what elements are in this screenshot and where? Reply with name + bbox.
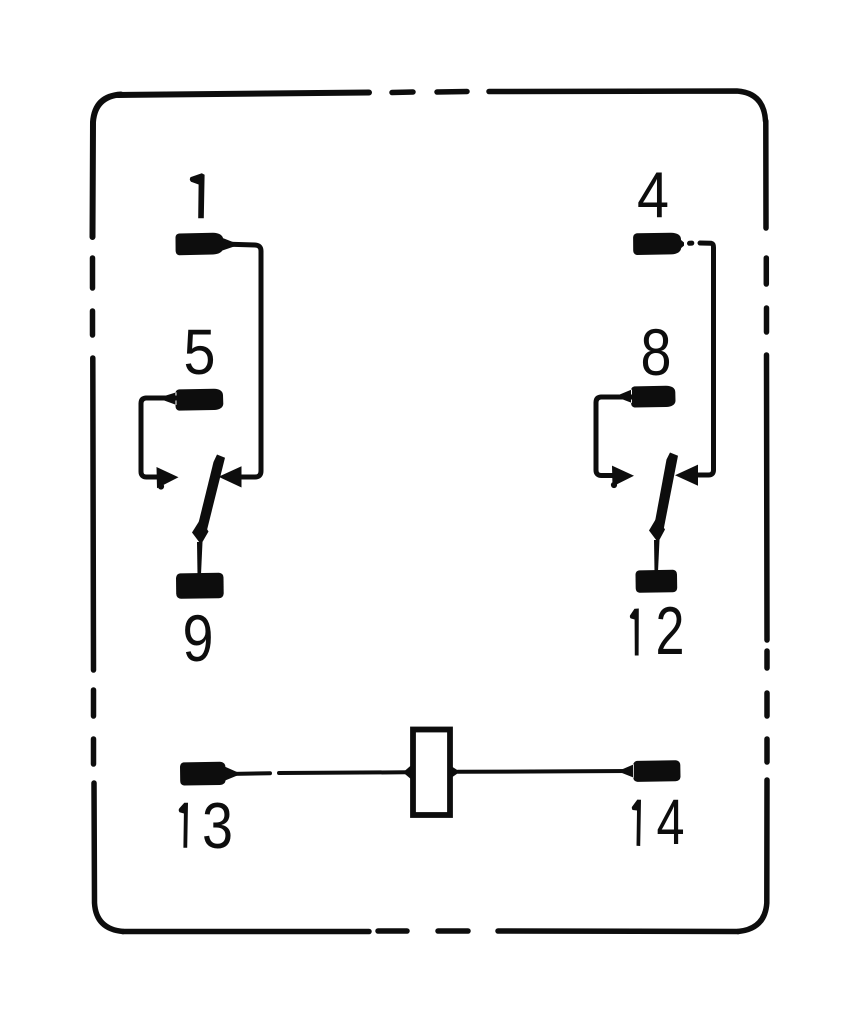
relay enclosure outline: right side lower dash 1 xyxy=(764,651,770,668)
relay enclosure outline: right side lower dash 3 xyxy=(764,739,770,762)
NO contact arrow of pole A (from pin 5) xyxy=(157,467,179,488)
relay enclosure outline: right side upper solid xyxy=(763,121,769,228)
wire pin 12 stem to armature pivot of pole B xyxy=(654,540,660,572)
relay enclosure outline: right side bottom solid and bottom-right corner xyxy=(738,780,767,932)
armature (common pole B, pin 12) xyxy=(654,453,678,531)
terminal pin 5 xyxy=(164,389,224,411)
pin label 13 xyxy=(179,789,233,862)
relay enclosure outline: bottom solid right span xyxy=(498,928,738,934)
relay enclosure outline: right side upper dash 2 xyxy=(764,308,770,332)
relay enclosure outline: left side middle solid xyxy=(90,358,96,670)
armature (common pole A, pin 9) xyxy=(197,455,225,533)
terminal pin 1 xyxy=(176,233,235,255)
relay enclosure outline: bottom dash 2 xyxy=(438,928,468,934)
armature pivot diamond of pole B xyxy=(649,517,665,543)
relay enclosure outline: top solid left span xyxy=(118,93,369,96)
relay enclosure outline: top dash 2 xyxy=(437,89,467,95)
terminal pin 4 xyxy=(633,233,684,255)
pin label 14 xyxy=(632,786,685,858)
wire pin 4 dashed link dash 1 xyxy=(690,241,692,246)
coil right lead flare xyxy=(451,766,460,778)
relay enclosure outline: right side lower dash 2 xyxy=(764,693,770,716)
pin label 12 xyxy=(630,593,685,669)
relay enclosure outline: top-left corner and left side upper solid xyxy=(93,95,122,238)
wire pin 4 dashed link dash 2 and bend down to NC contact of pole B xyxy=(699,243,714,475)
relay enclosure outline: top dash 1 xyxy=(392,89,413,95)
svg-text:9: 9 xyxy=(183,601,214,675)
relay enclosure outline: left side upper dash 1 xyxy=(90,258,96,288)
wire coil right lead to pin 14 xyxy=(458,769,630,774)
terminal pin 14 xyxy=(622,760,681,782)
relay enclosure outline: left side bottom solid and bottom-left corner xyxy=(94,783,123,932)
wire pin 5 to NO contact of pole A xyxy=(141,398,176,477)
relay enclosure outline: bottom dash 1 xyxy=(378,928,407,934)
relay enclosure outline: right side middle solid xyxy=(764,355,770,640)
pin label 1 xyxy=(190,173,205,218)
svg-text:5: 5 xyxy=(184,316,216,388)
svg-text:2: 2 xyxy=(656,593,685,669)
coil left lead flare xyxy=(403,765,412,781)
relay enclosure outline: left side lower dash 2 xyxy=(91,739,97,764)
wire pin 1 to NC contact of pole A xyxy=(222,244,261,477)
NC contact arrow of pole A (from pin 1) xyxy=(219,466,242,487)
armature pivot diamond of pole A xyxy=(192,519,209,545)
svg-text:4: 4 xyxy=(657,786,685,858)
wire pin 8 to NO contact of pole B xyxy=(596,397,632,476)
coil K1 (between pins 13 and 14) xyxy=(413,730,450,816)
svg-text:3: 3 xyxy=(202,789,233,862)
svg-text:4: 4 xyxy=(637,158,669,231)
relay enclosure outline: left side lower dash 1 xyxy=(91,690,97,716)
relay enclosure outline: left side upper dash 2 xyxy=(90,311,96,335)
terminal pin 8 xyxy=(620,386,676,408)
wire pin 9 stem to armature pivot of pole A xyxy=(197,542,203,575)
NC contact arrow of pole B (from pin 4) xyxy=(675,465,698,486)
NO contact arrow of pole B (from pin 8) xyxy=(612,466,634,487)
relay enclosure outline: right side upper dash 1 xyxy=(764,258,770,284)
svg-text:8: 8 xyxy=(641,315,672,389)
relay enclosure outline: bottom solid left span xyxy=(123,929,369,935)
terminal pin 9 xyxy=(176,573,224,599)
relay enclosure outline: top solid right span and top-right corner xyxy=(489,91,766,121)
wire pin 13 to coil left lead xyxy=(227,772,406,774)
terminal pin 13 xyxy=(180,762,237,786)
terminal pin 12 xyxy=(636,570,678,593)
